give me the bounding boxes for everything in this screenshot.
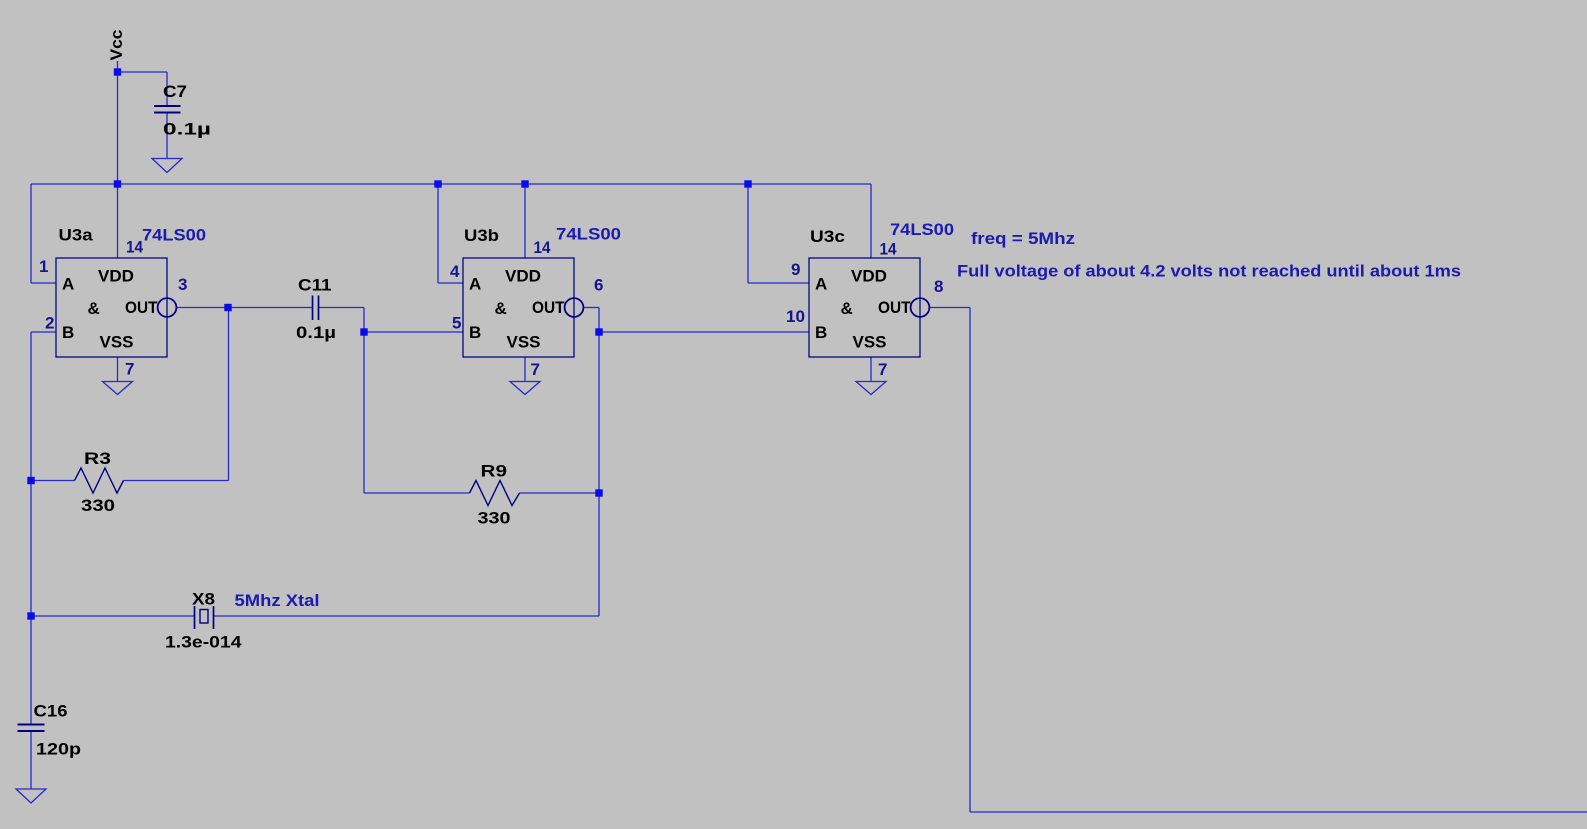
U3a pin number 3 <box>178 275 187 294</box>
svg-text:5Mhz Xtal: 5Mhz Xtal <box>235 591 320 610</box>
U3c designator label <box>810 227 845 246</box>
wire R3 right lead <box>124 480 229 482</box>
U3c pin number 8 <box>934 277 943 296</box>
junction left net / R3 <box>27 477 34 484</box>
U3a internal symbol & <box>88 299 100 318</box>
wire U3c pin10 stub <box>599 331 809 333</box>
svg-text:2: 2 <box>45 314 54 333</box>
wire U3b output vertical down to crystal net <box>598 308 600 617</box>
svg-text:OUT: OUT <box>125 298 158 317</box>
wire U3b pin14 vertical <box>524 184 526 258</box>
U3a pin number 2 <box>45 314 54 333</box>
svg-text:14: 14 <box>126 238 143 257</box>
svg-text:Vcc: Vcc <box>107 30 126 61</box>
wire U3a pin2 stub <box>31 331 56 333</box>
C7 designator label <box>163 82 187 101</box>
svg-text:&: & <box>841 299 853 318</box>
U3b internal pin name VSS <box>507 333 541 352</box>
svg-text:VSS: VSS <box>853 333 887 352</box>
U3b pin number 7 <box>531 360 540 379</box>
R3 designator label <box>84 449 111 468</box>
junction Vcc / C7 tap <box>114 68 121 75</box>
NAND gate U3c body <box>809 258 929 357</box>
resistor R3 <box>75 468 124 493</box>
U3b pin number 4 <box>450 262 460 281</box>
ground (C16) <box>16 789 46 803</box>
wire crystal net left segment <box>31 615 195 617</box>
wire U3b pin4 stub <box>438 282 463 284</box>
power Vcc terminal label <box>107 30 126 61</box>
svg-text:B: B <box>62 323 74 342</box>
wire C11 down to pin5 node <box>363 308 365 494</box>
svg-text:B: B <box>815 323 827 342</box>
svg-text:7: 7 <box>531 360 540 379</box>
ground (C7) <box>152 159 182 173</box>
svg-text:3: 3 <box>178 275 187 294</box>
svg-text:U3a: U3a <box>59 226 94 245</box>
U3a pin number 1 <box>39 257 48 276</box>
svg-text:&: & <box>495 299 507 318</box>
wire C7 bottom lead to ground <box>166 113 168 159</box>
svg-text:8: 8 <box>934 277 943 296</box>
svg-text:9: 9 <box>791 260 800 279</box>
svg-text:U3c: U3c <box>810 227 845 246</box>
R3 value label 330 <box>81 496 115 515</box>
svg-text:VDD: VDD <box>851 267 887 286</box>
ground (U3c pin 7) <box>856 382 886 395</box>
svg-text:120p: 120p <box>36 740 81 759</box>
wire left vertical (pin2 / R3 / X8 / C16 net) <box>30 332 32 616</box>
U3c internal pin name OUT <box>878 298 911 317</box>
wire U3b pin5 stub <box>364 331 463 333</box>
U3a designator label <box>59 226 94 245</box>
junction C11 right / U3b pin5 <box>360 328 367 335</box>
svg-text:VDD: VDD <box>505 267 541 286</box>
wire U3c pin14 vertical <box>870 184 872 258</box>
svg-text:A: A <box>62 275 74 294</box>
svg-text:0.1µ: 0.1µ <box>296 323 336 342</box>
svg-text:74LS00: 74LS00 <box>890 220 954 239</box>
svg-text:VDD: VDD <box>98 267 134 286</box>
U3c pin number 9 <box>791 260 800 279</box>
wire R9 left lead <box>364 492 470 494</box>
U3b pin number 14 <box>534 238 551 257</box>
svg-text:C11: C11 <box>298 276 332 295</box>
U3b designator label <box>464 226 499 245</box>
X8 value label 1.3e-014 <box>165 633 242 652</box>
svg-text:1: 1 <box>39 257 48 276</box>
wire R3 right vertical up to output node <box>228 308 230 481</box>
svg-text:C16: C16 <box>34 702 68 721</box>
svg-text:7: 7 <box>125 360 134 379</box>
U3b internal pin name OUT <box>532 298 565 317</box>
svg-text:freq = 5Mhz: freq = 5Mhz <box>971 229 1075 248</box>
wire U3c pin9 stub <box>748 282 809 284</box>
U3b internal pin name B <box>469 323 481 342</box>
wire U3a output to C11 <box>176 307 313 309</box>
svg-text:330: 330 <box>478 509 511 528</box>
wire C7 branch horizontal <box>118 71 168 73</box>
svg-text:A: A <box>815 275 827 294</box>
R9 value label 330 <box>478 509 511 528</box>
U3b pin number 6 <box>594 276 603 295</box>
wire U3c output right <box>929 307 970 309</box>
ground (U3a pin 7) <box>103 382 133 395</box>
svg-text:&: & <box>88 299 100 318</box>
svg-text:VSS: VSS <box>100 333 134 352</box>
svg-text:0.1µ: 0.1µ <box>163 120 211 139</box>
U3c internal symbol & <box>841 299 853 318</box>
U3a internal pin name A <box>62 275 74 294</box>
U3a internal pin name VSS <box>100 333 134 352</box>
svg-text:4: 4 <box>450 262 460 281</box>
U3c internal pin name B <box>815 323 827 342</box>
resistor R9 <box>470 481 520 506</box>
U3b type label 74LS00 <box>556 225 621 244</box>
junction Vcc bus / U3b pin4 <box>434 180 441 187</box>
wire U3c output vertical down <box>969 308 971 813</box>
wire C11 right lead <box>319 307 365 309</box>
capacitor C7 <box>154 106 181 113</box>
wire U3b pin4 vertical <box>437 184 439 283</box>
wire U3b output right <box>584 307 599 309</box>
svg-text:74LS00: 74LS00 <box>142 226 206 245</box>
wire C16 top lead <box>30 616 32 725</box>
svg-text:74LS00: 74LS00 <box>556 225 621 244</box>
svg-text:5: 5 <box>452 314 461 333</box>
svg-text:10: 10 <box>786 307 805 326</box>
wire top Vcc bus <box>31 183 871 185</box>
wire bottom horizontal to right edge <box>970 811 1587 813</box>
svg-text:OUT: OUT <box>532 298 565 317</box>
wire crystal net right segment <box>214 615 600 617</box>
U3c internal pin name VSS <box>853 333 887 352</box>
U3a internal pin name VDD <box>98 267 134 286</box>
U3a type label 74LS00 <box>142 226 206 245</box>
junction U3b output / U3c pin10 <box>595 328 602 335</box>
wire R3 left lead from left net <box>31 480 75 482</box>
C7 value label 0.1µ <box>163 120 211 139</box>
wire C7 top lead <box>166 72 168 106</box>
svg-text:X8: X8 <box>192 590 215 609</box>
C16 designator label <box>34 702 68 721</box>
U3c pin number 14 <box>880 240 897 259</box>
crystal X8 <box>195 606 214 629</box>
C11 value label 0.1µ <box>296 323 336 342</box>
svg-text:6: 6 <box>594 276 603 295</box>
wire U3c pin9 vertical <box>747 184 749 283</box>
junction Vcc bus / U3b pin14 <box>521 180 528 187</box>
U3a pin number 7 <box>125 360 134 379</box>
wire U3a pin1 vertical <box>30 184 32 283</box>
NAND gate U3a body <box>56 258 176 357</box>
U3b pin number 5 <box>452 314 461 333</box>
NAND gate U3b body <box>463 258 583 357</box>
wire U3b pin7 to ground <box>524 357 526 382</box>
svg-text:B: B <box>469 323 481 342</box>
wire R9 right lead <box>520 492 600 494</box>
wire U3c pin7 to ground <box>870 357 872 382</box>
annotation Full voltage note <box>957 262 1461 281</box>
svg-text:VSS: VSS <box>507 333 541 352</box>
capacitor C11 <box>313 296 319 321</box>
junction left net / crystal / C16 <box>27 612 34 619</box>
C16 value label 120p <box>36 740 81 759</box>
wire U3a pin7 to ground <box>117 357 119 382</box>
X8 designator label <box>192 590 215 609</box>
wire Vcc vertical (Vcc terminal down to U3a pin 14) <box>117 61 119 258</box>
svg-text:Full voltage of about 4.2 volt: Full voltage of about 4.2 volts not reac… <box>957 262 1461 281</box>
svg-text:R3: R3 <box>84 449 111 468</box>
wire U3a pin1 stub <box>31 282 56 284</box>
svg-text:14: 14 <box>880 240 897 259</box>
U3b internal pin name A <box>469 275 481 294</box>
R9 designator label <box>481 462 508 481</box>
svg-text:A: A <box>469 275 481 294</box>
ground (U3b pin 7) <box>510 382 540 395</box>
wire C16 bottom lead to ground <box>30 731 32 789</box>
C11 designator label <box>298 276 332 295</box>
U3c type label 74LS00 <box>890 220 954 239</box>
U3b internal pin name VDD <box>505 267 541 286</box>
U3c pin number 10 <box>786 307 805 326</box>
X8 annotation 5Mhz Xtal <box>235 591 320 610</box>
svg-text:U3b: U3b <box>464 226 499 245</box>
U3a pin number 14 <box>126 238 143 257</box>
U3b internal symbol & <box>495 299 507 318</box>
annotation freq = 5Mhz <box>971 229 1075 248</box>
svg-text:330: 330 <box>81 496 115 515</box>
U3c pin number 7 <box>878 360 887 379</box>
svg-text:OUT: OUT <box>878 298 911 317</box>
junction R9 right / U3b output net <box>595 489 602 496</box>
svg-text:7: 7 <box>878 360 887 379</box>
capacitor C16 <box>18 725 45 732</box>
svg-text:C7: C7 <box>163 82 187 101</box>
svg-text:1.3e-014: 1.3e-014 <box>165 633 242 652</box>
svg-text:14: 14 <box>534 238 551 257</box>
U3c internal pin name A <box>815 275 827 294</box>
svg-text:R9: R9 <box>481 462 508 481</box>
junction U3a output / C11 / R3 <box>224 304 231 311</box>
U3a internal pin name OUT <box>125 298 158 317</box>
junction Vcc bus / U3c pin9 <box>744 180 751 187</box>
junction Vcc bus / U3a pin14 <box>114 180 121 187</box>
U3c internal pin name VDD <box>851 267 887 286</box>
U3a internal pin name B <box>62 323 74 342</box>
